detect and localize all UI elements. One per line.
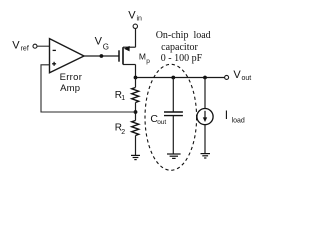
label VG [95,36,109,52]
svg-text:On-chip load: On-chip load [156,30,211,41]
svg-text:load: load [232,117,245,124]
wire Vref to op-amp inverting input [37,45,49,47]
current source Iload [197,78,213,154]
label R2 [115,123,126,136]
wire R1 to feedback tap [135,103,137,121]
wire rail to R1 [135,78,137,88]
label Iload [225,108,245,124]
svg-text:I: I [225,108,228,122]
wire R2 to ground [135,136,137,156]
label Error Amp [60,72,83,94]
transistor Q Mp (PMOS) [119,46,136,65]
wire Mp drain to output rail [135,65,137,78]
label Vout [233,69,251,82]
svg-text:out: out [242,75,252,82]
resistor R2 [132,121,139,136]
svg-text:out: out [157,119,166,126]
svg-text:1: 1 [121,95,125,102]
svg-text:V: V [12,40,20,52]
label Vref [12,40,29,53]
ground below Cout [167,154,181,158]
wire op-amp output to gate (node VG) [84,55,119,57]
node VG dot [100,54,104,58]
svg-text:V: V [128,10,136,22]
wire feedback to op-amp non-inverting input [41,65,136,112]
svg-text:2: 2 [121,129,125,136]
label Vin [128,10,142,23]
svg-text:G: G [103,43,109,52]
terminal Vin [133,24,137,28]
label Cout [150,113,166,126]
wire Mp source to Vin [135,29,137,48]
wire output rail [136,77,225,79]
capacitor Cout [164,78,183,155]
svg-text:Amp: Amp [60,83,80,94]
svg-text:M: M [139,52,146,62]
svg-text:p: p [146,58,150,65]
svg-text:ref: ref [21,46,29,53]
svg-text:capacitor: capacitor [161,42,198,53]
svg-text:V: V [233,69,241,81]
dashed ellipse around on-chip capacitor [145,64,197,170]
node Iload junction [203,76,207,80]
svg-text:V: V [95,36,103,48]
svg-text:in: in [137,15,143,22]
svg-text:Error: Error [60,72,83,83]
label Mp [139,52,150,66]
op-amp U1 Error Amp [50,39,85,73]
svg-text:0 - 100 pF: 0 - 100 pF [161,53,203,64]
ground below Iload [201,154,211,158]
ground below R2 [131,155,140,159]
node Cout junction [171,76,175,80]
label R1 [115,90,126,102]
terminal Vout [225,75,229,79]
node feedback tap [134,110,138,114]
terminal Vref [33,44,37,48]
node drain junction [134,76,138,80]
resistor R1 [132,88,139,103]
